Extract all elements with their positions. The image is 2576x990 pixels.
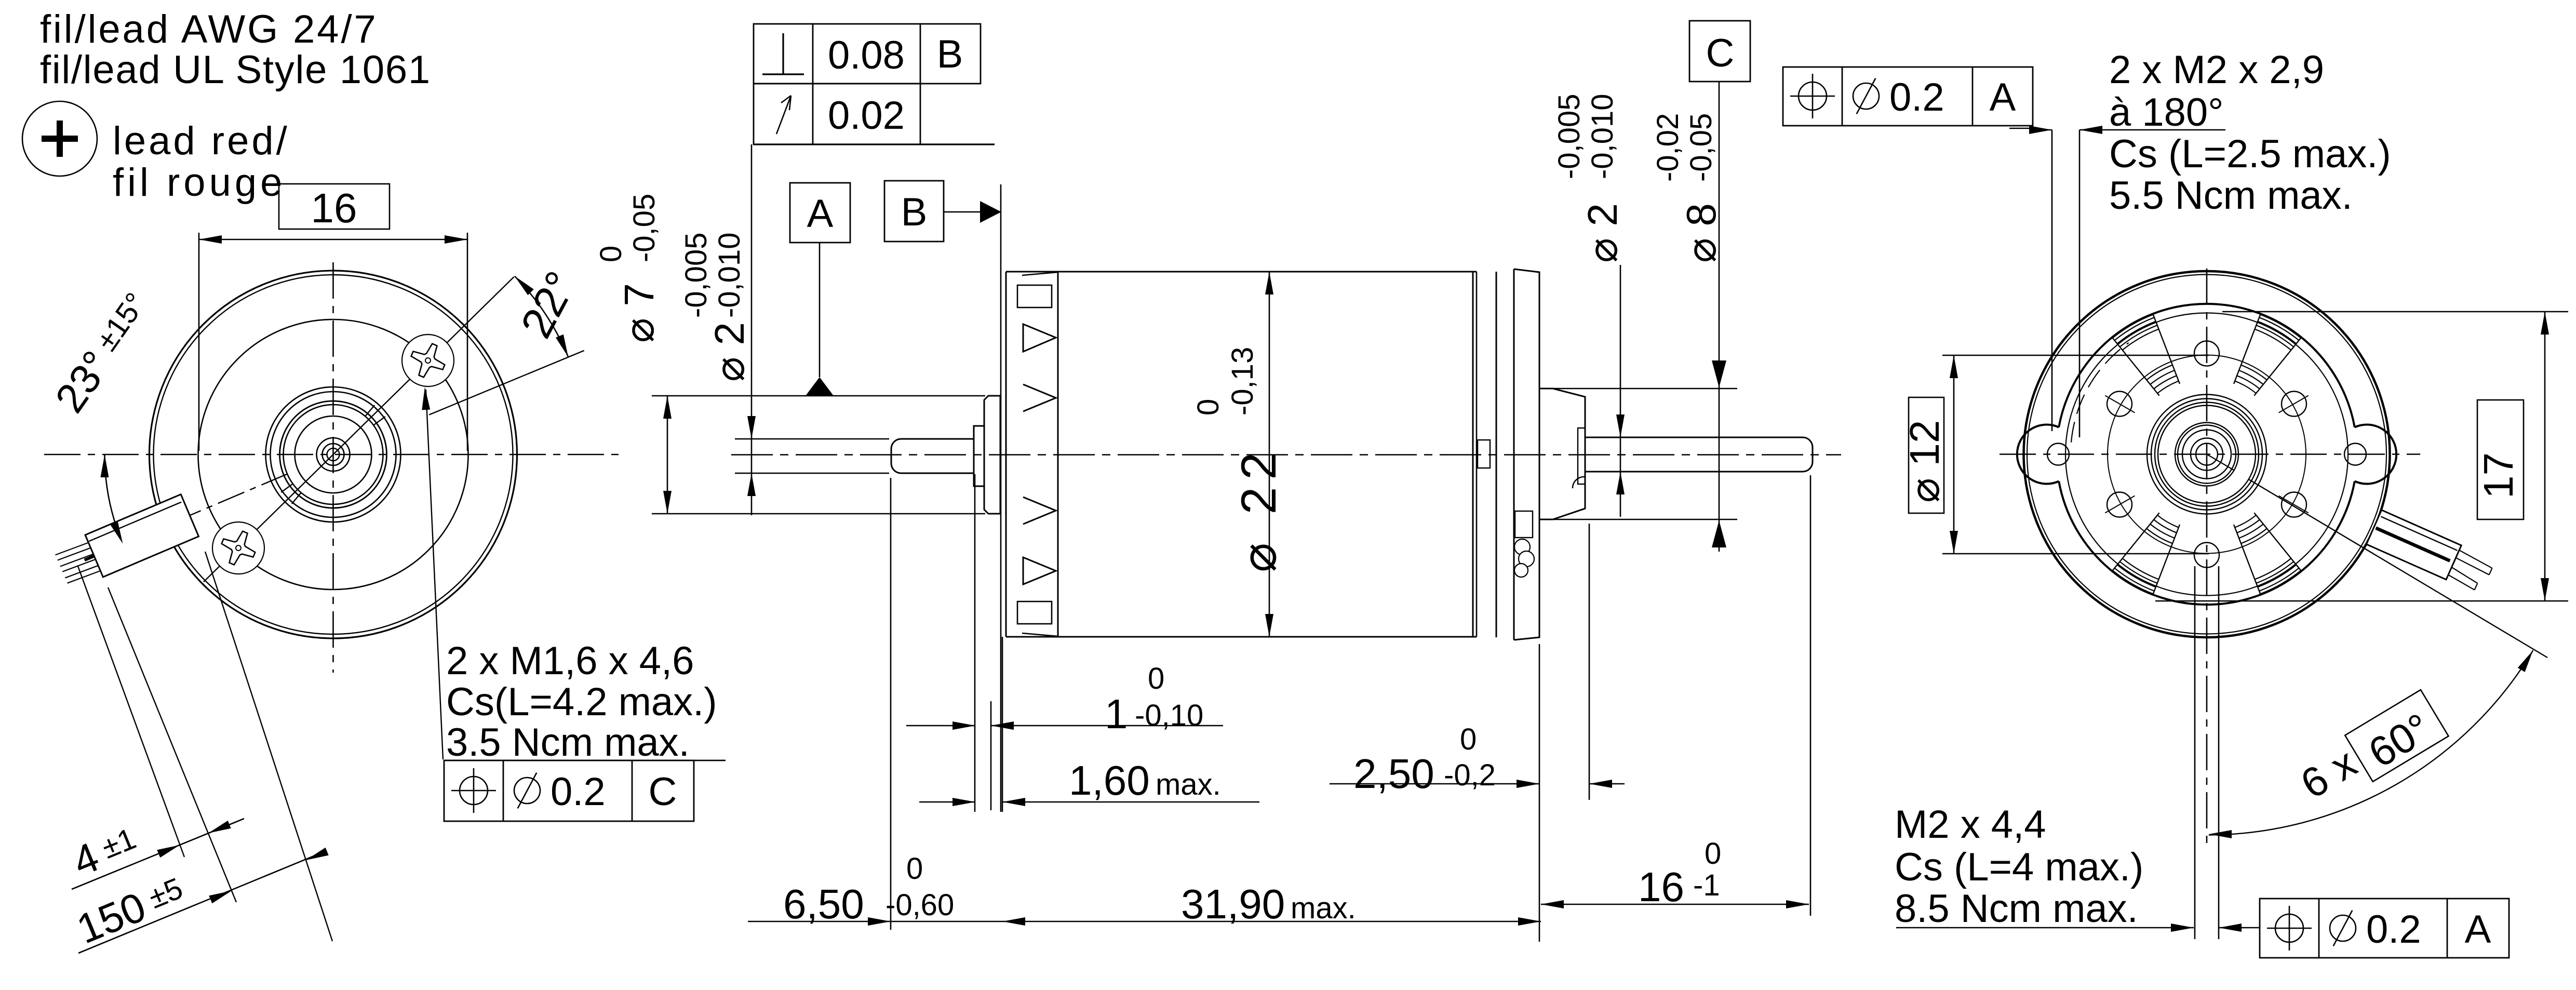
dim dia12 box	[1909, 397, 1944, 513]
svg-text:-1: -1	[1693, 868, 1720, 902]
lead dim extension line A	[78, 566, 184, 857]
dim 16 extension line right	[467, 233, 468, 451]
rear ear hole left	[2047, 444, 2069, 465]
svg-text:lead red/: lead red/	[113, 119, 290, 163]
end band line 1	[1496, 272, 1497, 637]
dim dia12 arrow bottom	[1950, 531, 1958, 554]
datum B leader	[944, 211, 980, 213]
rear view vertical centerline	[2206, 269, 2208, 844]
lead dim extension line B	[108, 587, 236, 902]
6x label	[2293, 739, 2364, 807]
rear coil slot 60 deg	[2234, 315, 2301, 396]
dim dia8 text	[1678, 203, 1724, 263]
middle view centerline	[731, 454, 1841, 456]
rear bearing boss	[1539, 389, 1585, 519]
svg-text:0.2: 0.2	[2366, 907, 2421, 952]
screw M1.6 lower left	[204, 514, 272, 582]
front hub ring r21	[323, 444, 344, 465]
svg-text:⌀ 8: ⌀ 8	[1678, 203, 1724, 263]
front hub ring r103	[280, 401, 387, 508]
fcf datum A (top)	[1990, 75, 2016, 119]
svg-text:⌀ 22: ⌀ 22	[1231, 445, 1286, 572]
svg-text:1: 1	[1105, 691, 1128, 737]
rear flange ear right	[2355, 425, 2396, 484]
brush terminal circle 2	[1519, 551, 1534, 567]
dim 16 text	[311, 185, 357, 231]
dim 4 arrow left	[157, 845, 180, 858]
dim 6.50 text	[783, 881, 864, 927]
svg-text:0.2: 0.2	[1889, 75, 1944, 119]
flange window bottom	[1017, 601, 1052, 624]
svg-text:max.: max.	[1156, 768, 1221, 801]
motor body top line	[1006, 271, 1477, 273]
rear lead inner line	[2381, 517, 2457, 551]
note 3.5 Ncm max	[446, 720, 690, 765]
front hub bore r12	[327, 448, 340, 461]
dim 1.60 arrow left	[952, 798, 975, 806]
fcf value 0.2 (bottom right)	[2366, 907, 2421, 952]
dim dia8 ext bottom	[1553, 519, 1737, 520]
svg-text:fil/lead UL Style 1061: fil/lead UL Style 1061	[40, 48, 431, 92]
fcf position frame (left view)	[444, 760, 726, 821]
svg-text:B: B	[901, 190, 928, 234]
dim dia7 ext top	[652, 395, 985, 397]
fcf position frame (top)	[1783, 67, 2033, 126]
svg-text:5.5 Ncm max.: 5.5 Ncm max.	[2109, 173, 2353, 218]
svg-text:16: 16	[1638, 864, 1684, 910]
front hub ring r74	[295, 416, 372, 493]
fcf diameter symbol (left view)	[514, 773, 540, 809]
datum A letter	[807, 192, 834, 236]
svg-text:⌀ 7: ⌀ 7	[616, 283, 662, 343]
ext rear shaft tip	[1810, 475, 1812, 916]
rear bearing bump	[1573, 477, 1585, 488]
note fil/lead UL Style 1061	[40, 48, 431, 92]
screw axis diagonal line	[204, 277, 514, 582]
dim 1 text	[1105, 691, 1128, 737]
datum C box	[1689, 21, 1750, 82]
screw M1.6 upper right	[394, 326, 462, 394]
dim M2 bottom arrow left	[2171, 924, 2194, 932]
svg-text:2,50: 2,50	[1353, 751, 1434, 797]
22 degree arc arrow lower	[556, 335, 568, 357]
lead connector body	[85, 494, 198, 577]
dim 17 ext top	[2222, 311, 2568, 313]
rear hub inner ring r21	[2196, 444, 2218, 465]
note Cs L=4.2 max	[446, 680, 717, 724]
dim dia7 arrow top	[663, 396, 672, 419]
motor can right edge 1	[1472, 272, 1474, 637]
dim 1.60 arrow right	[1002, 798, 1025, 806]
svg-text:-0,10: -0,10	[1135, 699, 1203, 732]
note fil rouge	[113, 160, 286, 205]
flange bottom edge	[1006, 636, 1058, 638]
svg-text:-0,05: -0,05	[627, 194, 661, 262]
dim M2 bottom line	[1896, 927, 2194, 929]
dim dia2 front text	[706, 322, 753, 382]
note M2x4,4	[1895, 802, 2046, 847]
svg-text:-0,010: -0,010	[713, 233, 746, 318]
dim 16r arrow right	[1786, 900, 1809, 908]
note lead red	[113, 119, 290, 163]
front view motor can inner circle	[154, 275, 513, 634]
note fil/lead AWG 24/7	[40, 7, 378, 51]
svg-text:à 180°: à 180°	[2109, 90, 2224, 135]
dim dia8 arrow bottom	[1712, 520, 1726, 547]
dim 4 arrow right	[208, 821, 231, 833]
svg-text:C: C	[1706, 31, 1735, 75]
motor body bottom line	[1006, 636, 1477, 638]
dim 31.90 text	[1181, 881, 1285, 927]
dim 16 arrow left	[199, 235, 222, 244]
svg-text:max.: max.	[1291, 891, 1356, 925]
svg-text:fil rouge: fil rouge	[113, 160, 286, 205]
svg-text:Cs(L=4.2 max.): Cs(L=4.2 max.)	[446, 680, 717, 724]
ext front face lower	[1002, 637, 1003, 812]
dim 16 extension line left	[198, 233, 200, 451]
dim dia12 text	[1901, 420, 1948, 503]
flange top edge	[1006, 271, 1058, 273]
left view vertical centerline	[332, 262, 334, 673]
rear flange ear left	[2017, 425, 2059, 484]
dim dia8 tol	[1651, 113, 1718, 182]
brush terminal circle 3	[1514, 564, 1528, 577]
vent hole tick 330 deg	[2279, 496, 2309, 513]
rear wire 1	[2456, 550, 2492, 574]
dim 6.50 arrow right	[1002, 917, 1025, 926]
datum A triangle	[806, 377, 834, 396]
flange tooth notch 4	[1023, 557, 1056, 584]
datum A box	[790, 183, 850, 243]
22 degree arc arrow upper	[515, 276, 534, 296]
svg-text:0: 0	[594, 246, 628, 262]
flange tooth notch 1	[1023, 324, 1056, 352]
dim dia2 rear arrow bottom	[1616, 472, 1625, 494]
dim 1.60 max text	[1156, 768, 1221, 801]
vent hole tick 210 deg	[2105, 496, 2135, 513]
dim M2 top arrow left	[2029, 126, 2052, 134]
plus symbol	[42, 121, 78, 157]
dim 150 arrow left	[209, 891, 232, 903]
ext boss step	[990, 701, 992, 810]
svg-text:31,90: 31,90	[1181, 881, 1285, 927]
front hub keyway tab 1	[365, 405, 385, 425]
rear coil slot 240 deg	[2113, 513, 2180, 594]
dim 150 text	[71, 867, 191, 953]
dim 17 ext bottom	[2155, 600, 2568, 602]
dim 150 dimension line	[78, 851, 325, 953]
svg-text:3.5 Ncm max.: 3.5 Ncm max.	[446, 720, 690, 765]
svg-text:0.2: 0.2	[551, 770, 606, 814]
ext M2 hole right	[2079, 130, 2081, 437]
datum A leader	[819, 243, 821, 377]
dim dia12 line	[1953, 355, 1955, 554]
datum B triangle	[980, 201, 1001, 223]
commutator rect	[1478, 440, 1490, 468]
dim 4 text	[66, 818, 144, 885]
rear coil slot 120 deg	[2113, 315, 2180, 396]
svg-text:M2 x 4,4: M2 x 4,4	[1895, 802, 2046, 847]
datum B letter	[901, 190, 928, 234]
dim 16r arrow left	[1541, 900, 1564, 908]
leader screw note	[426, 390, 443, 759]
rear vent hole 330 deg	[2282, 492, 2306, 517]
dim dia12 ext top	[1942, 355, 2209, 356]
svg-text:-0,05: -0,05	[1684, 113, 1718, 182]
flange bottom wedge	[1022, 633, 1058, 636]
rear hub inner ring r47	[2182, 430, 2231, 479]
dim 150 arrow right	[306, 848, 329, 860]
rear hub flat line	[2207, 454, 2234, 471]
note 2 x M1,6 x 4,6	[446, 639, 694, 683]
dim dia8 line	[1719, 82, 1720, 552]
front bearing boss	[984, 396, 1000, 514]
60 deg arc	[2209, 650, 2533, 835]
rear lead bundle	[2366, 510, 2461, 580]
end cap outline	[1514, 269, 1539, 640]
rear wire 2	[2448, 567, 2477, 590]
fcf perpendicularity datum B	[937, 32, 963, 76]
rear shaft	[1585, 437, 1813, 472]
svg-text:2 x M1,6 x 4,6: 2 x M1,6 x 4,6	[446, 639, 694, 683]
dim 2.50 line	[1330, 783, 1625, 785]
dim M2 bottom arrow right	[2219, 924, 2242, 932]
rear flange arc upper	[2059, 304, 2355, 427]
dim 16 box	[279, 184, 390, 229]
brush terminal circle 1	[1514, 539, 1530, 555]
front shaft	[891, 439, 974, 473]
dim 2.50 arrow right	[1589, 780, 1612, 788]
dim 17 box	[2477, 400, 2524, 519]
dim M2 top line left	[2033, 129, 2052, 131]
rear flange arc lower	[2059, 481, 2355, 605]
dim M2 bottom line right	[2219, 927, 2260, 929]
rear hub inner ring r31	[2191, 438, 2223, 471]
ext front shaft tip	[890, 478, 892, 930]
dim 2.50 arrow left	[1517, 780, 1539, 788]
front shaft dim leader vertical	[751, 144, 753, 515]
60 deg arc arrow bottom	[2209, 830, 2232, 838]
dim 16r line	[1541, 904, 1809, 905]
note 2xM2x2,9	[2109, 48, 2324, 92]
dim dia12 ext bottom	[1942, 553, 2209, 555]
vent hole tick 150 deg	[2105, 396, 2135, 413]
dim 31.90 max text	[1291, 891, 1356, 925]
dim dia2 front ext top	[735, 438, 889, 440]
front face plate line2	[1005, 272, 1007, 637]
dim 1.60 line	[919, 801, 1259, 803]
dim 1 tol	[1135, 662, 1203, 732]
rear hub ring r94	[2158, 406, 2256, 503]
svg-text:fil/lead AWG 24/7: fil/lead AWG 24/7	[40, 7, 378, 51]
flange window top	[1017, 285, 1052, 307]
datum C letter	[1706, 31, 1735, 75]
svg-text:8.5 Ncm max.: 8.5 Ncm max.	[1895, 887, 2138, 931]
rear vent hole 90 deg	[2194, 341, 2219, 366]
rear hub ring r107	[2151, 399, 2262, 510]
fcf position symbol (top)	[1790, 74, 1835, 118]
front view mounting flange circle Ø16	[198, 319, 468, 590]
front shaft step ring	[974, 426, 984, 486]
dim dia22 line	[1269, 272, 1270, 637]
svg-text:-0,60: -0,60	[886, 888, 954, 922]
dim dia22 tol	[1191, 347, 1259, 416]
lead axis dashed line	[187, 474, 288, 516]
fcf runout value 0.02	[828, 93, 905, 138]
datum B box	[884, 181, 944, 242]
dim dia2 front tol	[679, 233, 746, 318]
svg-text:16: 16	[311, 185, 357, 231]
note 5.5 Ncm	[2109, 173, 2353, 218]
svg-text:-0,010: -0,010	[1586, 94, 1619, 179]
front hub keyway tab 2	[281, 484, 301, 504]
dim 6.50 arrow left	[868, 917, 891, 926]
end band line 2	[1513, 269, 1515, 640]
flange top wedge	[1022, 272, 1058, 275]
dim 17 line	[2544, 312, 2546, 601]
svg-text:-0,005: -0,005	[1552, 94, 1586, 179]
leader screw note arrow	[422, 387, 430, 410]
flange tooth strip right edge	[1057, 272, 1059, 637]
fcf diameter symbol (top)	[1853, 78, 1879, 114]
dim 16r text	[1638, 864, 1684, 910]
ext hole edge left	[2194, 566, 2196, 939]
dim dia7 arrow bottom	[663, 491, 672, 514]
svg-text:2 x M2 x 2,9: 2 x M2 x 2,9	[2109, 48, 2324, 92]
dim 17 arrow top	[2541, 312, 2549, 335]
plus lead circle	[22, 101, 97, 176]
rear vent hole 270 deg	[2194, 543, 2219, 568]
perpendicularity symbol	[762, 33, 804, 74]
rear ear hole right	[2344, 444, 2366, 465]
svg-text:0: 0	[906, 852, 923, 886]
svg-text:0.08: 0.08	[828, 33, 905, 77]
dim dia8 ext top	[1553, 388, 1737, 390]
vent hole tick 30 deg	[2279, 396, 2309, 413]
23 degree dimension arc	[105, 454, 123, 544]
ext hole edge right	[2218, 566, 2220, 939]
rear hub ring r100	[2155, 403, 2259, 506]
fcf value 0.2 (left view)	[551, 770, 606, 814]
dim dia7 line	[667, 396, 668, 514]
rear vent hole 150 deg	[2107, 392, 2132, 417]
dim dia2 rear text	[1579, 203, 1626, 263]
fcf position symbol (bottom right)	[2267, 906, 2312, 951]
front hub ring r130	[266, 387, 401, 522]
svg-text:-0,005: -0,005	[679, 233, 713, 318]
fcf position frame (bottom right)	[2260, 899, 2509, 958]
svg-text:-0,2: -0,2	[1444, 758, 1496, 792]
dim 16 dimension line	[199, 239, 467, 240]
60 box	[2345, 690, 2449, 783]
22 degree dimension arc	[515, 276, 568, 357]
svg-text:⌀ 2: ⌀ 2	[706, 322, 753, 382]
23 degree label	[46, 285, 160, 420]
dim dia22 arrow bottom	[1265, 614, 1273, 637]
svg-text:-0,13: -0,13	[1226, 347, 1259, 416]
dim dia22 arrow top	[1265, 272, 1273, 295]
dim dia2 rear arrow top	[1616, 414, 1625, 437]
dim M2 top line right	[2079, 129, 2225, 131]
dim 1 arrow left	[952, 721, 975, 730]
svg-text:C: C	[649, 770, 677, 814]
svg-text:0: 0	[1191, 399, 1225, 416]
svg-text:⌀ 12: ⌀ 12	[1901, 420, 1948, 503]
lead axis solid line	[85, 515, 190, 560]
23 degree arc arrow bottom	[110, 521, 123, 544]
rear vent hole 30 deg	[2282, 392, 2306, 417]
dim 17 text	[2475, 452, 2521, 499]
rear lead axis line	[2376, 528, 2450, 561]
22 degree label	[512, 264, 586, 346]
left view horizontal centerline	[44, 454, 619, 456]
brush box	[1515, 511, 1533, 538]
rear dashed arc	[2071, 343, 2129, 443]
fcf leader ledge	[754, 143, 995, 145]
note Cs L=4	[1895, 845, 2143, 889]
fcf perpendicularity frame	[754, 24, 981, 84]
svg-text:6,50: 6,50	[783, 881, 864, 927]
dim dia2 front arrow bottom	[747, 473, 756, 496]
22 degree reference line	[429, 351, 584, 415]
svg-text:-0,02: -0,02	[1651, 113, 1685, 182]
lead dim extension line C	[205, 552, 332, 941]
rear hub inner ring r56	[2178, 425, 2236, 484]
23 degree arc arrow top	[101, 454, 109, 477]
runout symbol	[776, 96, 791, 134]
lead connector inner line	[89, 502, 181, 541]
motor can right edge 2	[1476, 272, 1478, 637]
svg-text:⌀ 2: ⌀ 2	[1579, 203, 1626, 263]
front face plate line1	[1000, 184, 1002, 812]
note a 180	[2109, 90, 2224, 135]
svg-text:0: 0	[1460, 723, 1477, 756]
rear shaft root washer	[1578, 428, 1585, 484]
dim 6.50/31.90 line	[748, 921, 1541, 922]
svg-text:Cs (L=2.5 max.): Cs (L=2.5 max.)	[2109, 132, 2391, 176]
fcf datum A (bottom right)	[2465, 907, 2491, 952]
dim 6.50 tol	[886, 852, 954, 922]
svg-text:A: A	[807, 192, 834, 236]
front view motor can outer circle	[150, 271, 517, 638]
rear hub ring r115	[2147, 395, 2266, 514]
ext boss end lower	[1589, 524, 1590, 800]
radial ext line 330	[2249, 479, 2547, 658]
svg-text:Cs (L=4 max.): Cs (L=4 max.)	[1895, 845, 2143, 889]
svg-text:0: 0	[1148, 662, 1164, 695]
dim 16r tol	[1693, 837, 1721, 902]
fcf datum C (left view)	[649, 770, 677, 814]
svg-text:B: B	[937, 32, 963, 76]
front hub ring r96	[284, 405, 383, 504]
flange tooth notch 2	[1023, 384, 1056, 411]
lead wire 2	[60, 554, 96, 572]
rear can inner circle	[2027, 275, 2386, 634]
rear view horizontal centerline	[2000, 453, 2420, 455]
ext M2 hole left	[2051, 130, 2053, 431]
rear hole pitch circle	[2108, 355, 2306, 554]
dim 16 arrow right	[445, 235, 467, 244]
dim M2 top arrow right	[2079, 126, 2102, 134]
front hub ring r32	[317, 438, 350, 471]
svg-text:1,60: 1,60	[1069, 757, 1150, 804]
rear hub inner ring r61	[2175, 423, 2238, 486]
dim 1 line	[906, 725, 1223, 727]
rear flange inner circle Ø17	[2065, 313, 2348, 596]
flange tooth notch 3	[1023, 497, 1056, 524]
fcf position symbol (left view)	[451, 768, 496, 813]
dim dia7 ext bottom	[652, 513, 985, 515]
